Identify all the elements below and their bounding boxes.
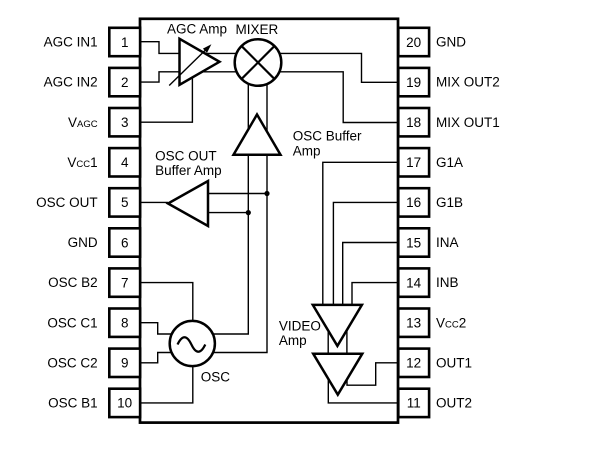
- svg-text:2: 2: [121, 75, 129, 90]
- svg-text:16: 16: [406, 195, 421, 210]
- svg-text:20: 20: [406, 35, 421, 50]
- svg-text:19: 19: [406, 75, 421, 90]
- svg-text:GND: GND: [68, 235, 98, 250]
- svg-text:Amp: Amp: [293, 143, 321, 158]
- svg-text:11: 11: [407, 396, 421, 411]
- svg-text:12: 12: [406, 356, 421, 371]
- svg-text:VCC1: VCC1: [67, 155, 97, 170]
- svg-text:15: 15: [406, 235, 421, 250]
- svg-text:AGC IN1: AGC IN1: [44, 35, 98, 50]
- svg-text:INB: INB: [436, 275, 459, 290]
- svg-text:G1B: G1B: [436, 195, 463, 210]
- svg-text:MIXER: MIXER: [236, 22, 279, 37]
- svg-text:GND: GND: [436, 35, 466, 50]
- svg-text:Buffer Amp: Buffer Amp: [155, 163, 222, 178]
- svg-text:OSC C1: OSC C1: [47, 315, 97, 330]
- svg-text:OUT2: OUT2: [436, 396, 472, 411]
- svg-text:13: 13: [406, 316, 421, 331]
- svg-text:VIDEO: VIDEO: [279, 318, 321, 333]
- svg-text:OSC OUT: OSC OUT: [36, 195, 98, 210]
- svg-text:OSC C2: OSC C2: [47, 355, 97, 370]
- svg-text:3: 3: [121, 115, 129, 130]
- svg-text:AGC Amp: AGC Amp: [167, 22, 227, 37]
- svg-text:5: 5: [121, 195, 129, 210]
- svg-text:8: 8: [121, 316, 129, 331]
- svg-text:INA: INA: [436, 235, 459, 250]
- svg-text:OUT1: OUT1: [436, 355, 472, 370]
- svg-text:7: 7: [121, 275, 129, 290]
- svg-text:18: 18: [406, 115, 421, 130]
- svg-text:MIX OUT2: MIX OUT2: [436, 75, 500, 90]
- svg-text:VCC2: VCC2: [436, 315, 466, 330]
- svg-text:OSC B1: OSC B1: [48, 396, 98, 411]
- svg-text:OSC: OSC: [201, 370, 231, 385]
- svg-text:6: 6: [121, 235, 129, 250]
- svg-text:14: 14: [406, 275, 422, 290]
- svg-text:OSC OUT: OSC OUT: [155, 148, 217, 163]
- svg-text:17: 17: [406, 155, 421, 170]
- svg-text:VAGC: VAGC: [68, 115, 98, 130]
- svg-text:G1A: G1A: [436, 155, 463, 170]
- svg-text:10: 10: [117, 396, 132, 411]
- svg-text:OSC Buffer: OSC Buffer: [293, 129, 362, 144]
- svg-text:1: 1: [121, 35, 129, 50]
- svg-text:Amp: Amp: [279, 333, 307, 348]
- svg-text:OSC B2: OSC B2: [48, 275, 98, 290]
- svg-text:4: 4: [121, 155, 129, 170]
- svg-text:AGC IN2: AGC IN2: [44, 75, 98, 90]
- svg-text:9: 9: [121, 356, 129, 371]
- svg-text:MIX OUT1: MIX OUT1: [436, 115, 500, 130]
